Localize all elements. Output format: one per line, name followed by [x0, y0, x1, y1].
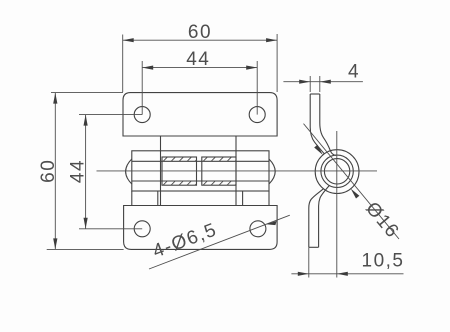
- knuckle tube section right rect: [202, 157, 236, 185]
- dim 10.5 extension line left: [308, 247, 310, 277]
- pin edge line lower: [132, 180, 269, 182]
- knuckle mid circle: [321, 155, 353, 187]
- bottom plate hole left: [134, 221, 150, 237]
- hatching right tube section: [203, 157, 236, 185]
- barrel outer rectangle: [132, 151, 269, 191]
- arrowhead dim 44 left top: [84, 115, 88, 126]
- dim 10.5 dimension line: [291, 273, 403, 275]
- lower leaf wrap edge left (through and below barrel): [157, 191, 159, 206]
- leader line 4-d6.5: [149, 215, 290, 269]
- horizontal centerline through barrel and knuckle: [97, 170, 378, 172]
- dim 60 left extension line bottom: [47, 248, 124, 250]
- side view lower strip right edge: [319, 186, 330, 248]
- dim 4 dimension line: [283, 81, 363, 83]
- side view lower strip bottom cap: [309, 246, 319, 248]
- dim 4 extension line left: [309, 76, 311, 92]
- dim 60 top extension line right: [276, 34, 278, 92]
- top plate hole left: [134, 107, 150, 123]
- dim 44 top extension line left: [141, 61, 143, 115]
- barrel side edge right extension below: [268, 191, 270, 206]
- pin edge line upper: [132, 160, 269, 162]
- svg-text:10,5: 10,5: [362, 251, 405, 272]
- vertical centerline of knuckle: [336, 131, 338, 278]
- side view upper strip top cap: [310, 93, 320, 95]
- svg-text:44: 44: [186, 49, 210, 70]
- arrowhead dim 4 right: [320, 80, 331, 84]
- svg-text:60: 60: [38, 159, 59, 183]
- pin end cap left: [126, 159, 132, 184]
- top plate hole right: [249, 107, 265, 123]
- lower leaf wrap edge right (through and below barrel): [242, 191, 244, 206]
- dim 44 top dimension line: [142, 67, 257, 69]
- arrowhead dia16 upper: [314, 145, 323, 155]
- arrowhead dim 60 top left: [123, 38, 134, 42]
- knuckle outer circle: [315, 150, 359, 194]
- dim 4 extension line right: [319, 76, 321, 92]
- arrowhead dim 60 left bottom: [53, 238, 57, 249]
- arrowhead dia16 lower: [351, 189, 360, 199]
- side view upper strip right edge: [320, 94, 336, 155]
- central leaf edge left (top plate to barrel): [160, 136, 162, 206]
- arrowhead dim 60 left top: [53, 93, 57, 104]
- bottom leaf plate outline: [124, 206, 278, 250]
- arrowhead dim 44 top left: [142, 66, 153, 70]
- dim 60 left extension line top: [51, 92, 123, 94]
- arrowhead dim 44 left bottom: [84, 218, 88, 229]
- arrowhead leader 4-d6.5: [266, 221, 277, 225]
- dim 44 top extension line right: [256, 61, 258, 115]
- hatching left tube section: [163, 157, 196, 185]
- bottom plate hole right: [250, 221, 266, 237]
- arrowhead dim 4 left: [299, 80, 310, 84]
- side view lower strip left edge: [309, 189, 324, 248]
- central leaf edge right (top plate to barrel): [235, 136, 237, 206]
- side view upper strip left edge: [310, 94, 324, 154]
- svg-text:44: 44: [68, 159, 89, 183]
- arrowhead dim 10.5 right: [337, 272, 348, 276]
- dim 44 left dimension line: [85, 115, 87, 229]
- dim 60 left dimension line: [54, 93, 56, 250]
- arrowhead dim 60 top right: [266, 38, 277, 42]
- svg-text:60: 60: [188, 22, 212, 43]
- svg-text:4: 4: [348, 62, 360, 83]
- pin end cap right: [269, 159, 275, 184]
- barrel side edge left extension below: [131, 191, 133, 206]
- knuckle tube section left rect: [162, 157, 197, 185]
- dim 44 left extension line bottom: [79, 228, 142, 230]
- arrowhead dim 10.5 left: [298, 272, 309, 276]
- arrowhead dim 44 top right: [246, 66, 257, 70]
- dim 60 top extension line left: [122, 35, 124, 93]
- knuckle pin hole circle: [324, 159, 349, 184]
- top leaf plate outline: [123, 93, 277, 136]
- dim 60 top dimension line: [123, 39, 277, 41]
- dim 44 left extension line top: [79, 114, 142, 116]
- dia16 leader line: [304, 124, 400, 239]
